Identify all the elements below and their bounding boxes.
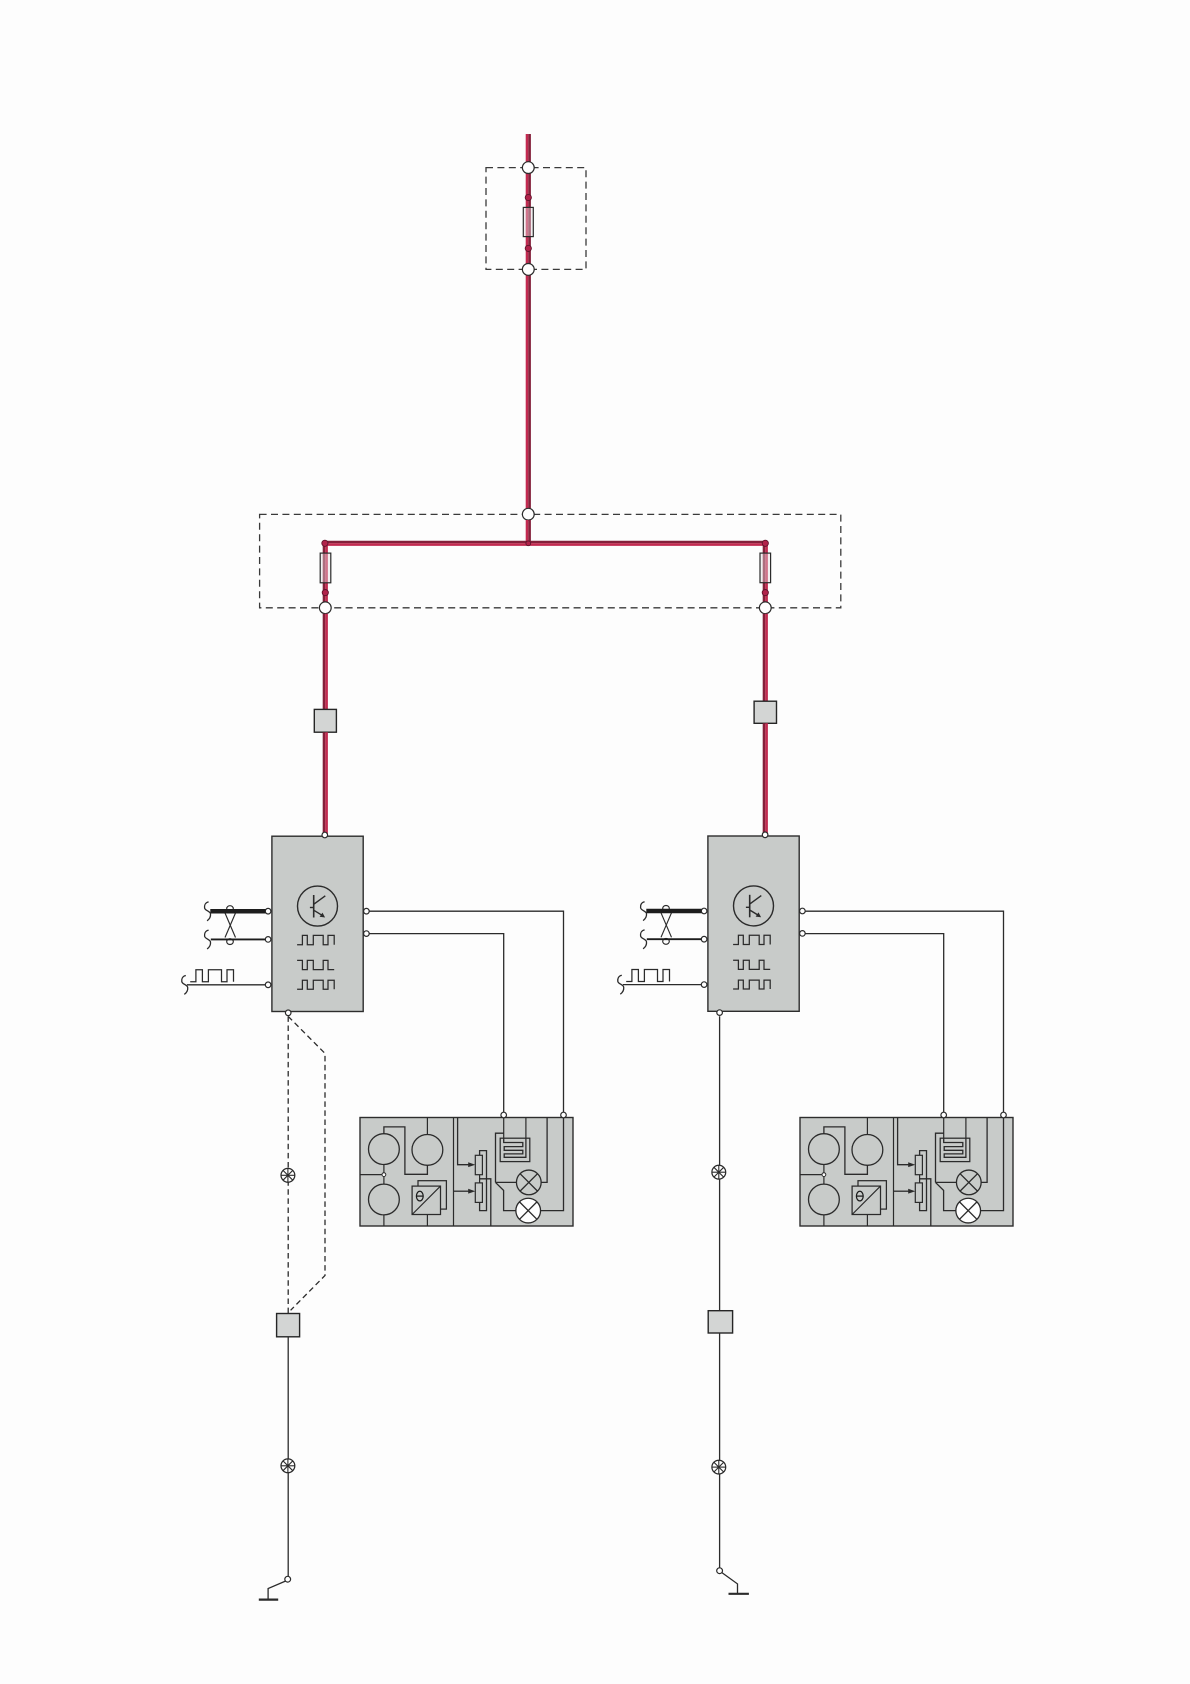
wire: thick screened input to U1 — [210, 909, 265, 914]
arrow into R1 in cluster 2 (right) — [908, 1162, 915, 1167]
splice S1 on dashed lead — [281, 1168, 295, 1182]
pin node B of cluster 2 (right) — [1001, 1112, 1007, 1118]
wire: return input to U1 — [211, 938, 266, 940]
break squiggle on speed input of U1 — [182, 976, 188, 995]
wire: red right branch down to control unit U2 — [764, 723, 767, 836]
wire: converter to box bottom in cluster 2 (right) — [866, 1215, 868, 1227]
resistor R2 in cluster 2 (right) — [915, 1183, 922, 1203]
gauge G3 in cluster 2 (right) — [809, 1184, 840, 1215]
fuse box 1 (dashed outline) — [486, 168, 586, 270]
wire: U1 output 2 to cluster pin A — [363, 934, 504, 1115]
resistor R1 in cluster 1 (left) — [475, 1155, 482, 1174]
corner dot left branch — [322, 540, 328, 546]
temperature converter (theta) in cluster 2 (right) — [852, 1186, 880, 1214]
heater element frame in cluster 2 (right) — [940, 1138, 970, 1161]
wire: lamp L2 right lead up in cluster 1 (left) — [541, 1118, 564, 1211]
junction node between gauges of cluster 1 (left) — [382, 1173, 386, 1177]
fuse F1 — [523, 207, 533, 236]
wire: jog from L1 node to lamp L2 in cluster 1 (left) — [496, 1182, 516, 1210]
offset square behind converter in cluster 2 (right) — [858, 1181, 886, 1209]
wire: feed to resistor R1 in cluster 2 (right) — [898, 1118, 910, 1165]
pulse waveform at speed input of U1 — [190, 970, 233, 982]
pin node left 2 of U1 — [265, 937, 271, 943]
wire: red distribution bus — [324, 542, 767, 545]
transistor symbol in U1 — [298, 886, 338, 926]
wire: left ground lead to terminal — [287, 1473, 289, 1577]
pin node top of U2 — [762, 832, 768, 838]
break squiggle on return input of U2 — [641, 930, 647, 949]
internal divider wire in cluster 2 (right) — [893, 1118, 895, 1227]
heater meander in cluster 1 (left) — [504, 1138, 526, 1157]
pin node bottom of U1 — [285, 1010, 291, 1016]
pin node A of cluster 1 (left) — [501, 1112, 507, 1118]
wire: supply into gauges of cluster 2 (right) — [800, 1174, 822, 1176]
gauge G2 in cluster 2 (right) — [852, 1135, 883, 1166]
pin node right 2 of U2 — [800, 931, 806, 937]
wire: speed signal input to U2 — [623, 984, 702, 986]
transistor symbol in U2 — [734, 886, 774, 926]
wire: link junction to box bottom in cluster 1 (left) — [480, 1179, 491, 1226]
internal divider wire in cluster 1 (left) — [453, 1118, 455, 1227]
wire: red left branch down to connector C1 — [324, 614, 327, 710]
control unit U2 box — [708, 836, 799, 1011]
wire: red right branch down to connector C2 — [764, 614, 767, 702]
wire: lamp L1 right lead up in cluster 1 (left) — [541, 1118, 547, 1183]
wire: G1 bottom to junction in cluster 2 (right) — [823, 1165, 825, 1173]
wire: dashed ground lead from U1 — [287, 1016, 289, 1313]
junction dot on bus — [526, 541, 531, 546]
arrow into R1 in cluster 1 (left) — [468, 1162, 475, 1167]
connector node left branch exit — [319, 602, 331, 614]
lamp L2 in cluster 2 (right) — [956, 1198, 981, 1223]
pulse waveform at speed input of U2 — [626, 970, 669, 982]
wire: thick screened input to U2 — [646, 909, 701, 914]
control unit U1 box — [272, 836, 363, 1011]
wire: converter to box bottom in cluster 1 (left) — [426, 1215, 428, 1227]
connector node at junction box top — [522, 508, 534, 520]
break squiggle on thick input of U2 — [641, 902, 647, 921]
terminal dot below fuse F2 — [322, 590, 328, 596]
connector node at fuse box 1 bottom — [522, 264, 534, 276]
break squiggle on thick input of U1 — [205, 902, 211, 921]
wire: red right branch inside junction box — [764, 544, 767, 608]
pin node right 1 of U1 — [364, 908, 370, 914]
pin node left 2 of U2 — [701, 936, 707, 942]
offset square behind converter in cluster 1 (left) — [418, 1181, 446, 1209]
pin node A of cluster 2 (right) — [941, 1112, 947, 1118]
heater element frame in cluster 1 (left) — [500, 1138, 530, 1161]
wire: dashed bypass branch at U1 — [288, 1016, 325, 1310]
lamp L1 in cluster 1 (left) — [516, 1170, 541, 1195]
wire: lamp L2 right lead up in cluster 2 (right) — [981, 1118, 1004, 1211]
pulse symbol 2 in U2 — [733, 960, 770, 969]
resistor R2 in cluster 1 (left) — [475, 1183, 482, 1203]
lamp L2 in cluster 1 (left) — [516, 1198, 541, 1223]
wire: right ground lead to terminal — [719, 1474, 721, 1568]
wire: junction to G3 in cluster 1 (left) — [383, 1177, 385, 1185]
twisted-pair symbol at U1 — [225, 906, 236, 945]
wire: lamp L1 right lead up in cluster 2 (right) — [981, 1118, 987, 1183]
connector C1 (left) — [314, 709, 336, 732]
instrument cluster cluster 2 (right) box — [800, 1118, 1013, 1227]
gauge G2 in cluster 1 (left) — [412, 1135, 443, 1166]
heater meander in cluster 2 (right) — [944, 1138, 966, 1157]
wire: R1 to R2 link in cluster 1 (left) — [479, 1175, 481, 1183]
break squiggle on return input of U1 — [205, 930, 211, 949]
wire: feed to resistor R1 in cluster 1 (left) — [458, 1118, 470, 1165]
pin node left 3 of U1 — [265, 982, 271, 988]
wire: red battery feed from top — [527, 134, 530, 514]
junction node between gauges of cluster 2 (right) — [822, 1173, 826, 1177]
terminal dot below fuse F1 — [525, 245, 531, 251]
junction unit box (dashed outline) — [260, 514, 841, 607]
wire: return input to U2 — [647, 938, 702, 940]
pulse symbol 1 in U2 — [733, 935, 770, 944]
splice S4 on right ground lead — [712, 1460, 726, 1474]
connector node right branch exit — [759, 602, 771, 614]
gauge G1 in cluster 2 (right) — [809, 1134, 840, 1165]
terminal dot above fuse F1 — [525, 194, 531, 200]
wire: heater return lead to box edge in cluster 2 (right) — [965, 1118, 967, 1139]
splice S3 on right ground lead — [712, 1165, 726, 1179]
wire: right ground lead to C4 — [719, 1179, 721, 1311]
gauge G1 in cluster 1 (left) — [369, 1134, 400, 1165]
fuse F3 (right branch) — [760, 553, 771, 583]
wire: bracket pin lead to lamp L1 in cluster 1 (left) — [496, 1133, 504, 1182]
pin node B of cluster 1 (left) — [561, 1112, 567, 1118]
wire: heater return lead to box edge in cluster 1 (left) — [525, 1118, 527, 1139]
pin node bottom of U2 — [717, 1010, 723, 1016]
pulse symbol 1 in U1 — [297, 935, 334, 944]
wire: U1 output 1 to cluster pin B — [363, 911, 563, 1115]
connector C3 (left ground lead) — [277, 1314, 300, 1337]
fuse F2 (left branch) — [320, 553, 331, 583]
twisted-pair symbol at U2 — [661, 906, 672, 945]
wire: G2 top to box edge in cluster 2 (right) — [866, 1118, 868, 1135]
wire: junction to G3 in cluster 2 (right) — [823, 1177, 825, 1185]
pin node left 1 of U1 — [265, 908, 271, 914]
wire: R1 top loop to R2 bottom in cluster 2 (right) — [920, 1151, 927, 1211]
arrow into R2 in cluster 2 (right) — [908, 1189, 915, 1194]
wire: G1 bottom to junction in cluster 1 (left) — [383, 1165, 385, 1173]
wire: jog from L1 node to lamp L2 in cluster 2 (right) — [936, 1182, 956, 1210]
corner dot right branch — [762, 540, 768, 546]
wire: G2 top to box edge in cluster 1 (left) — [426, 1118, 428, 1135]
terminal dot below fuse F3 — [762, 590, 768, 596]
connector C2 (right) — [754, 701, 776, 723]
wire: U2 output 2 to cluster pin A — [800, 934, 944, 1115]
wire: R1 top loop to R2 bottom in cluster 1 (left) — [480, 1151, 487, 1211]
wire: U2 output 1 to cluster pin B — [800, 911, 1003, 1115]
wire: feed to resistor R2 in cluster 1 (left) — [454, 1190, 470, 1192]
instrument cluster cluster 1 (left) box — [360, 1118, 573, 1227]
ground terminal left — [259, 1576, 291, 1599]
gauge G3 in cluster 1 (left) — [369, 1184, 400, 1215]
resistor R1 in cluster 2 (right) — [915, 1155, 922, 1174]
wire: R1 to R2 link in cluster 2 (right) — [919, 1175, 921, 1183]
pulse symbol 3 in U1 — [297, 980, 334, 989]
pin node right 2 of U1 — [364, 931, 370, 937]
arrow into R2 in cluster 1 (left) — [468, 1189, 475, 1194]
wire: supply into gauges of cluster 1 (left) — [360, 1174, 382, 1176]
wire: G1 top to G2 bottom in cluster 2 (right) — [824, 1127, 868, 1174]
wire: ground lead below C3 — [287, 1337, 289, 1459]
wire: lamp L1 left lead in cluster 1 (left) — [496, 1181, 517, 1183]
wire: lamp L1 left lead in cluster 2 (right) — [936, 1181, 957, 1183]
wire: feed to resistor R2 in cluster 2 (right) — [894, 1190, 910, 1192]
wire: G1 top to G2 bottom in cluster 1 (left) — [384, 1127, 428, 1174]
lamp L1 in cluster 2 (right) — [956, 1170, 981, 1195]
wire: pin A lead into heater of cluster 2 (right) — [943, 1116, 945, 1141]
wire: red left branch inside junction box — [324, 544, 327, 608]
wire: red left branch down to control unit U1 — [324, 732, 327, 836]
pin node right 1 of U2 — [800, 908, 806, 914]
pin node top of U1 — [322, 832, 328, 838]
pin node left 1 of U2 — [701, 908, 707, 914]
wire: bracket pin lead to lamp L1 in cluster 2 (right) — [936, 1133, 944, 1182]
temperature converter (theta) in cluster 1 (left) — [412, 1186, 440, 1214]
pulse symbol 3 in U2 — [733, 980, 770, 989]
break squiggle on speed input of U2 — [618, 975, 624, 994]
pulse symbol 2 in U1 — [297, 960, 334, 969]
wire: G3 bottom to box edge in cluster 1 (left) — [383, 1215, 385, 1226]
wire: ground lead below C4 — [719, 1333, 721, 1460]
splice S2 on left ground lead — [281, 1459, 295, 1473]
connector node at fuse box 1 top — [522, 162, 534, 174]
connector C4 (right ground lead) — [708, 1311, 732, 1333]
wire: pin A lead into heater of cluster 1 (left) — [503, 1116, 505, 1141]
wire: red feed into junction box — [527, 520, 530, 543]
wire: ground lead from U2 — [719, 1016, 721, 1165]
wire: link junction to box bottom in cluster 2 (right) — [920, 1179, 931, 1226]
pin node left 3 of U2 — [701, 982, 707, 988]
wire: speed signal input to U1 — [187, 984, 266, 986]
ground terminal right — [717, 1568, 749, 1594]
wire: G3 bottom to box edge in cluster 2 (right) — [823, 1215, 825, 1226]
